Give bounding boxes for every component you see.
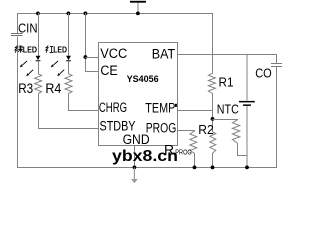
resistor R1 — [208, 73, 215, 93]
wire green LED drop — [38, 13, 40, 56]
wire R1 drop from rail — [212, 13, 214, 73]
wire R1 bottom — [212, 93, 214, 132]
wire GND drop — [134, 145, 136, 167]
svg-text:CHRG: CHRG — [99, 100, 127, 115]
svg-text:PROG: PROG — [146, 120, 177, 135]
label red LED — [46, 46, 67, 55]
svg-text:R1: R1 — [219, 74, 234, 89]
wire battery branch — [246, 55, 248, 101]
svg-text:YS4056: YS4056 — [127, 73, 159, 84]
wire BAT — [177, 54, 277, 56]
wire left rail upper — [17, 13, 19, 33]
node dot Rprog/rail — [193, 166, 197, 170]
node dot NTC junction — [211, 117, 215, 121]
node dot green branch — [36, 12, 40, 16]
wire battery to rail — [246, 106, 248, 167]
wire bottom rail — [17, 167, 277, 169]
wire top rail — [17, 13, 213, 15]
svg-text:CO: CO — [255, 65, 272, 80]
svg-text:ybx8.cn: ybx8.cn — [112, 148, 178, 165]
wire R3 to STDBY — [39, 93, 99, 128]
svg-text:VCC: VCC — [100, 46, 127, 61]
wire NTC branch — [213, 119, 239, 121]
resistor R3 — [35, 74, 42, 94]
svg-text:CE: CE — [100, 63, 117, 78]
wire R4 to CHRG — [69, 93, 99, 110]
wire R2 bottom — [212, 153, 214, 167]
svg-text:GND: GND — [123, 132, 150, 147]
svg-text:NTC: NTC — [217, 101, 239, 116]
svg-text:LED: LED — [53, 46, 67, 55]
resistor R2 — [210, 132, 216, 153]
node dot R2/rail — [211, 166, 215, 170]
wire VCC/CE drop — [85, 13, 87, 72]
svg-text:BAT: BAT — [152, 46, 175, 61]
power input symbol — [130, 1, 146, 16]
pin square TEMP — [175, 104, 177, 107]
svg-text:TEMP: TEMP — [145, 100, 175, 115]
label green LED — [15, 45, 37, 54]
wire Rprog bottom — [194, 153, 196, 167]
resistor R4 — [65, 74, 72, 94]
wire left rail lower — [17, 37, 19, 167]
battery BT1 — [239, 101, 255, 106]
capacitor CIN — [11, 34, 23, 36]
node dot battery/rail — [245, 166, 249, 170]
svg-text:LED: LED — [23, 46, 37, 55]
wire VCC — [86, 57, 99, 59]
node dot VCC branch — [84, 12, 88, 16]
wire — [68, 61, 70, 74]
svg-text:R3: R3 — [18, 81, 33, 96]
svg-text:CIN: CIN — [18, 21, 38, 36]
svg-text:R2: R2 — [198, 122, 214, 137]
wire right rail upper — [276, 55, 278, 64]
wire — [38, 61, 40, 74]
wire red LED drop — [68, 13, 70, 56]
wire right rail lower — [276, 67, 278, 168]
resistor RPROG — [190, 131, 197, 153]
node dot red branch — [67, 12, 71, 16]
LED D2 (red) — [51, 56, 71, 76]
wire TEMP — [177, 110, 213, 112]
node dot GND — [133, 166, 137, 170]
LED D1 (green) — [20, 56, 41, 76]
capacitor CO — [271, 64, 282, 67]
wire CE — [86, 71, 99, 73]
svg-text:R4: R4 — [45, 81, 61, 96]
wire PROG to Rprog — [177, 130, 195, 133]
wire NTC bottom — [238, 143, 248, 156]
thermistor NTC — [232, 120, 239, 143]
ground arrow — [131, 168, 138, 184]
IC U1 YS4056 box — [99, 43, 178, 146]
node dot VCC — [84, 55, 88, 59]
